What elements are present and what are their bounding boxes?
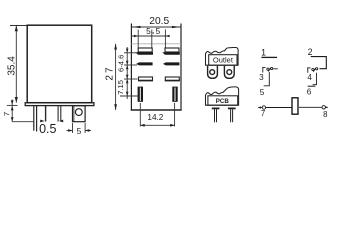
svg-text:7.15: 7.15 <box>116 80 125 95</box>
pole B common bar <box>308 85 316 87</box>
outlet lug terminals <box>208 66 235 79</box>
pin P3 <box>58 106 61 122</box>
dimension 0.5 (pin thickness) <box>40 120 63 123</box>
wire pole B common <box>313 73 317 85</box>
svg-text:0.5: 0.5 <box>39 122 56 136</box>
chained dims 6-4.6 / 7.15 <box>120 47 138 99</box>
slot row B <box>136 62 179 65</box>
contact pole A assembly <box>262 67 278 72</box>
pcb socket view <box>206 87 239 105</box>
svg-text:5: 5 <box>260 88 265 97</box>
dimension 5 / 5 (slot pitch) <box>132 30 170 49</box>
svg-text:35.4: 35.4 <box>7 56 18 76</box>
outlet socket view <box>206 47 239 65</box>
svg-text:8: 8 <box>323 110 327 119</box>
pin P1 (QC terminal) <box>34 106 37 132</box>
svg-text:3: 3 <box>259 73 264 82</box>
relay bottom view outline <box>131 24 182 111</box>
svg-text:4: 4 <box>307 73 312 82</box>
bottom vertical slots <box>138 87 178 102</box>
coil wire left <box>258 106 291 109</box>
svg-text:6: 6 <box>307 88 312 97</box>
coil wire right <box>299 106 328 109</box>
dimension 27 <box>115 44 117 110</box>
relay body side view <box>25 25 94 105</box>
dimension 5 (flange width) <box>67 123 92 133</box>
contact 1 plate <box>261 56 277 58</box>
coil <box>292 98 298 114</box>
svg-text:5: 5 <box>77 126 82 136</box>
svg-text:7: 7 <box>2 112 11 116</box>
svg-text:2: 2 <box>308 47 313 57</box>
svg-text:14.2: 14.2 <box>147 113 163 122</box>
slot row A <box>136 48 180 55</box>
contact pole B assembly <box>307 68 318 73</box>
svg-text:Outlet: Outlet <box>213 56 234 65</box>
pin P2 <box>45 106 47 122</box>
slot row C <box>138 77 180 81</box>
svg-text:6-4.6: 6-4.6 <box>116 55 125 72</box>
svg-text:1: 1 <box>261 48 266 58</box>
pcb pin terminals <box>212 108 236 122</box>
svg-text:7: 7 <box>261 109 265 118</box>
mounting flange with hole <box>73 106 86 122</box>
svg-text:PCB: PCB <box>216 98 230 105</box>
svg-text:27: 27 <box>105 65 116 80</box>
dimension 35.4 <box>10 26 27 103</box>
svg-text:5: 5 <box>155 26 160 36</box>
dimension 7 (pin length) <box>7 100 34 122</box>
svg-text:5: 5 <box>146 26 151 36</box>
wire pole A common <box>264 72 270 86</box>
contact 2 plate with corner <box>311 57 327 69</box>
